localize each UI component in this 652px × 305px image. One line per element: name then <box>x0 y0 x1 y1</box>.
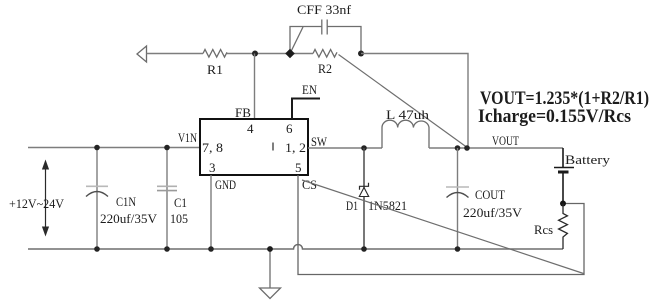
svg-text:V1N: V1N <box>178 131 197 145</box>
svg-text:CS: CS <box>302 178 317 192</box>
resistor R2 <box>313 50 337 58</box>
wire GND pin to rail <box>210 175 212 249</box>
wire R1 to R2 <box>227 53 313 55</box>
wire CS pin to sense rail <box>298 175 584 275</box>
svg-text:EN: EN <box>302 83 317 97</box>
input voltage range arrow <box>42 160 49 237</box>
svg-text:Rcs: Rcs <box>534 223 553 237</box>
svg-text:5: 5 <box>295 160 302 175</box>
node FB junction <box>252 51 258 57</box>
node R2 right junction <box>358 51 364 57</box>
ground symbol <box>260 250 281 299</box>
wire input top rail <box>28 147 200 149</box>
node D1 bottom junction <box>361 246 367 252</box>
svg-text:L 47uh: L 47uh <box>386 108 430 122</box>
svg-text:GND: GND <box>215 178 236 192</box>
left feedback arrow <box>137 46 203 62</box>
svg-text:Icharge=0.155V/Rcs: Icharge=0.155V/Rcs <box>478 106 631 127</box>
capacitor C1 <box>157 148 177 250</box>
battery <box>554 148 574 204</box>
wire EN stub <box>292 99 320 120</box>
svg-text:C1: C1 <box>174 196 187 210</box>
wire R2 to right corner <box>361 54 468 148</box>
svg-text:+12V~24V: +12V~24V <box>9 197 64 211</box>
wire diagonal R2 to VOUT node <box>339 55 467 148</box>
capacitor CFF loop <box>290 20 361 54</box>
svg-text:R2: R2 <box>318 62 332 76</box>
node C1 junctions <box>164 145 170 151</box>
node battery bottom junction <box>560 201 566 207</box>
op-amp U1 regulator box <box>200 119 308 175</box>
node GND rail junction <box>208 246 214 252</box>
node CFF left junction <box>285 49 295 59</box>
wire VOUT rail <box>429 147 563 149</box>
node COUT top junction <box>455 145 461 151</box>
diode D1 1N5821 <box>359 148 368 249</box>
svg-text:220uf/35V: 220uf/35V <box>463 206 522 220</box>
svg-text:1N5821: 1N5821 <box>368 199 407 213</box>
svg-text:7, 8: 7, 8 <box>202 140 223 155</box>
capacitor C1N <box>86 148 108 250</box>
svg-text:Battery: Battery <box>565 153 611 167</box>
svg-text:CFF 33nf: CFF 33nf <box>297 3 352 17</box>
svg-text:220uf/35V: 220uf/35V <box>100 212 157 226</box>
wire FB vertical <box>254 54 256 120</box>
svg-text:105: 105 <box>170 212 188 226</box>
svg-text:D1: D1 <box>346 199 358 213</box>
inductor L1 47uh <box>382 120 429 148</box>
svg-text:C1N: C1N <box>116 195 136 209</box>
wire SW to inductor <box>308 147 382 149</box>
svg-text:COUT: COUT <box>475 188 505 202</box>
node feedback corner junction <box>464 145 470 151</box>
svg-text:VOUT: VOUT <box>492 134 519 148</box>
svg-text:6: 6 <box>286 121 293 136</box>
resistor Rcs <box>559 204 568 249</box>
capacitor COUT <box>446 148 469 249</box>
wire ground bottom rail <box>28 245 563 250</box>
resistor R1 <box>203 50 227 58</box>
wire CS diagonal to corner <box>302 180 584 274</box>
node C1N junctions <box>94 145 100 151</box>
svg-text:4: 4 <box>247 121 254 136</box>
svg-text:1, 2: 1, 2 <box>285 140 306 155</box>
svg-text:R1: R1 <box>207 63 223 77</box>
pin 1,2 <box>272 143 274 151</box>
svg-text:FB: FB <box>235 106 251 120</box>
node ground junction <box>267 246 273 252</box>
node D1 top junction <box>361 145 367 151</box>
node COUT bottom junction <box>455 246 461 252</box>
svg-text:SW: SW <box>311 135 327 149</box>
svg-text:3: 3 <box>209 160 216 175</box>
